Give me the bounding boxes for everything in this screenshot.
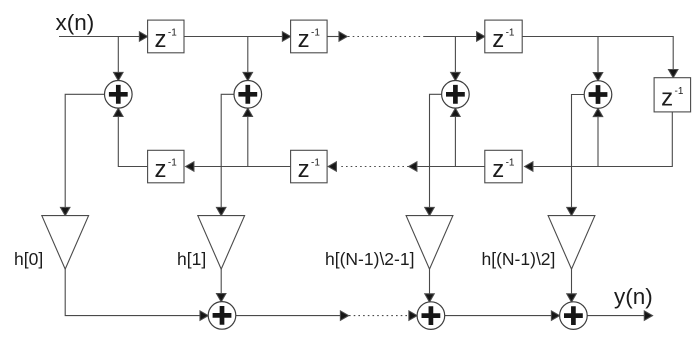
svg-text:z: z (155, 26, 167, 53)
svg-text:-1: -1 (311, 28, 320, 39)
adder A1 (105, 81, 133, 109)
delay Z6 (291, 150, 328, 183)
multiplier h[(N-1)\2-1] (gain triangle) (406, 216, 453, 270)
wire: S1 to S2 (dotted, omitted stages) (236, 311, 417, 320)
wire: tap down to adder A2 (243, 37, 252, 81)
wire: h[(N-1)\2-1] output to adder S2 (425, 269, 434, 302)
wire: tap down to adder A3 (451, 37, 460, 81)
wire: adder A2 to h[1] multiplier (217, 94, 235, 215)
delay Z5 (148, 150, 184, 183)
svg-text:h[1]: h[1] (177, 249, 206, 269)
adder A2 (234, 81, 262, 109)
svg-text:z: z (492, 26, 504, 53)
wire: Z2 to Z3 (dotted, omitted stages) (327, 32, 485, 41)
svg-text:z: z (298, 156, 310, 183)
svg-text:h[(N-1)\2]: h[(N-1)\2] (482, 249, 556, 269)
adder S3 (560, 302, 588, 330)
svg-text:-1: -1 (168, 28, 177, 39)
svg-text:z: z (298, 26, 310, 53)
wire: Z1 to Z2 (184, 32, 291, 41)
adder A4 (584, 81, 612, 109)
svg-text:x(n): x(n) (56, 10, 95, 35)
wire: adder A1 to h[0] multiplier (61, 94, 105, 215)
delay Z2 (291, 20, 328, 53)
svg-text:-1: -1 (311, 158, 320, 169)
wire: adder A3 to h[(N-1)\2-1] multiplier (425, 94, 442, 215)
adder A3 (442, 81, 470, 109)
multiplier h[0] (gain triangle) (42, 216, 89, 270)
svg-text:-1: -1 (675, 86, 684, 97)
svg-text:y(n): y(n) (614, 284, 653, 309)
delay Z7 (485, 150, 522, 183)
wire: tap up to adder A2 (243, 108, 252, 166)
adder S1 (208, 302, 236, 330)
multiplier h[1] (gain triangle) (198, 216, 245, 270)
wire: tap up to adder A3 (451, 108, 460, 166)
wire: tap down to adder A1 (114, 37, 123, 81)
wire: Z6 to Z5 (186, 162, 291, 171)
svg-text:h[0]: h[0] (14, 249, 43, 269)
svg-text:z: z (155, 156, 167, 183)
wire: h[(N-1)\2] output to adder S3 (567, 269, 576, 302)
wire: h[1] output to adder S1 (217, 269, 226, 302)
delay Z3 (485, 20, 522, 53)
wire: tap up to adder A4 (593, 108, 602, 166)
svg-text:-1: -1 (168, 158, 177, 169)
wire: S3 to y(n) output (587, 311, 652, 320)
wire: Z4 down and left to Z7 (525, 112, 673, 171)
wire: h[0] output to adder S1 (65, 269, 208, 320)
svg-text:-1: -1 (506, 28, 515, 39)
adder S2 (417, 302, 445, 330)
wire: Z5 up to adder A1 (114, 108, 148, 166)
wire: S2 to S3 (445, 311, 560, 320)
svg-text:h[(N-1)\2-1]: h[(N-1)\2-1] (325, 249, 414, 269)
delay Z1 (148, 20, 184, 53)
wire: tap down to adder A4 (593, 37, 602, 81)
wire: Z7 to Z6 (dotted, omitted stages) (328, 162, 485, 171)
wire: adder A4 to h[(N-1)\2] multiplier (567, 95, 584, 216)
wire: x(n) input to Z1 (59, 32, 148, 41)
svg-text:z: z (492, 156, 504, 183)
svg-text:z: z (661, 85, 673, 112)
multiplier h[(N-1)\2] (gain triangle) (548, 216, 595, 270)
svg-text:-1: -1 (506, 158, 515, 169)
delay Z4 (654, 78, 691, 112)
wire: Z3 to Z4 (522, 37, 678, 78)
